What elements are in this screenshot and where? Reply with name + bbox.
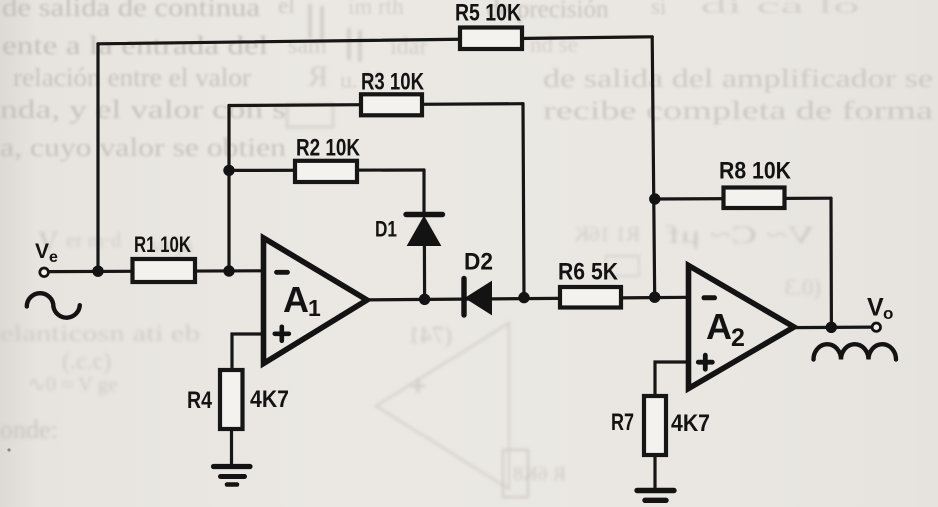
op-amp A1 plus: [275, 327, 289, 341]
wire top R5 run: [98, 37, 652, 44]
svg-text:(0.3: (0.3: [785, 275, 821, 300]
diode D2: [464, 279, 492, 316]
op-amp A1 minus: [277, 270, 288, 275]
svg-text:4K7: 4K7: [671, 410, 710, 437]
svg-text:nda, y el valor con s: nda, y el valor con s: [0, 95, 286, 124]
terminal Ve: [40, 268, 49, 277]
terminal Vo: [872, 323, 880, 331]
svg-text:R6 5K: R6 5K: [558, 259, 619, 286]
node at R1 right / A1 inverting: [223, 265, 234, 276]
svg-text:R1 10K: R1 10K: [134, 232, 191, 257]
node at R2 junction: [223, 165, 234, 176]
svg-text:V: V: [35, 240, 49, 263]
svg-text:2: 2: [731, 324, 745, 352]
wire left vertical feedback riser: [96, 44, 99, 271]
wire R3 drop: [523, 104, 524, 298]
svg-text:o: o: [883, 304, 893, 323]
svg-text:relación entre el valor: relación entre el valor: [13, 63, 251, 92]
wire R2 run: [229, 168, 424, 172]
svg-text:de salida de continua: de salida de continua: [2, 0, 261, 22]
resistor R6: [560, 287, 621, 308]
op-amp A1: [264, 238, 368, 364]
node at A2 output: [826, 322, 837, 333]
op-amp A2 plus: [698, 355, 712, 369]
svg-text:sam: sam: [288, 33, 327, 59]
svg-text:R8 10K: R8 10K: [719, 158, 792, 185]
wire R7 to ground: [653, 455, 656, 488]
speck bottom left: [7, 448, 10, 451]
ghost text line 4: [0, 95, 934, 125]
resistor R4: [220, 370, 243, 429]
svg-text:A: A: [706, 306, 732, 347]
svg-text:R: R: [308, 60, 328, 93]
wire Ve to A1 inverting input: [49, 269, 264, 273]
svg-text:el: el: [278, 0, 295, 18]
node at D2 / R3 drop: [518, 292, 529, 303]
ghost plus: [411, 379, 425, 393]
resistor R7: [644, 396, 666, 455]
ghost V formula left: [38, 227, 193, 258]
svg-text:D1: D1: [375, 217, 397, 242]
svg-text:V: V: [867, 294, 884, 322]
op-amp A2 minus: [704, 295, 715, 300]
ghost vertical strokes top: [310, 4, 360, 62]
svg-text:idar: idar: [390, 34, 427, 60]
svg-text:nd se: nd se: [530, 32, 578, 57]
node at R8 branch: [649, 193, 660, 204]
wire R3 riser: [227, 106, 230, 272]
ghost text line 3: [13, 63, 933, 94]
resistor R3: [361, 94, 422, 115]
wire D1 anode to output node: [423, 245, 426, 299]
svg-text:R2 10K: R2 10K: [296, 135, 361, 162]
ground A2: [637, 491, 674, 501]
ghost small box upper: [287, 104, 333, 127]
wire R4 to ground: [230, 429, 233, 464]
coil symbol at output: [814, 344, 897, 359]
svg-text:R3 10K: R3 10K: [361, 69, 425, 96]
svg-text:∿0 ≈ V ge: ∿0 ≈ V ge: [28, 372, 118, 396]
svg-text:R7: R7: [611, 409, 634, 436]
svg-text:recibe completa de forma: recibe completa de forma: [543, 96, 934, 125]
svg-text:R4: R4: [187, 387, 213, 414]
node at D1 / A1 output: [419, 294, 430, 305]
svg-text:R 6K8: R 6K8: [513, 463, 566, 485]
ghost vertical resistor box: [503, 450, 528, 497]
svg-text:A: A: [283, 279, 309, 320]
wire A2 noninverting input: [655, 362, 689, 396]
wire A2 output: [793, 326, 872, 330]
ghost text line 5: [0, 133, 286, 162]
svg-text:R1 16K: R1 16K: [574, 222, 640, 246]
svg-text:(741: (741: [408, 323, 452, 349]
ground A1: [214, 467, 251, 485]
svg-text:im rth: im rth: [348, 0, 404, 19]
ghost hline: [530, 265, 669, 267]
svg-text:a, cuyo valor se obtien: a, cuyo valor se obtien: [0, 133, 286, 162]
svg-text:R5 10K: R5 10K: [455, 0, 522, 27]
wire R2 to D1 cathode: [422, 170, 425, 215]
svg-text:D2: D2: [464, 249, 493, 276]
diode D1: [406, 215, 443, 246]
wire right vertical R5 drop: [652, 37, 655, 297]
ghost vline upper center: [379, 190, 381, 262]
ghost mirrored figure: triangle: [376, 323, 509, 489]
wire A1 output run to A2 input: [365, 297, 689, 300]
wire R8 drop: [829, 198, 833, 327]
ghost mirrored table texts: [574, 222, 821, 300]
svg-text:1: 1: [308, 295, 321, 321]
svg-text:V~ C~ μf: V~ C~ μf: [666, 222, 815, 249]
svg-text:di ca lo: di ca lo: [700, 0, 860, 18]
svg-text:si: si: [651, 0, 666, 19]
wire R8 run: [655, 197, 831, 201]
resistor R1: [133, 259, 196, 282]
sine source symbol: [27, 293, 80, 317]
svg-text:ente a la entrada del: ente a la entrada del: [2, 31, 268, 60]
op-amp A2: [689, 266, 795, 389]
svg-text:e: e: [49, 249, 58, 266]
wire A1 noninverting input: [232, 334, 264, 370]
resistor R5: [460, 28, 522, 50]
schematic ink layer: [49, 37, 873, 488]
ghost mirrored mid-left block: [0, 321, 200, 444]
ghost text line 2: [2, 31, 578, 60]
ghost text line 1: [2, 0, 860, 23]
svg-text:de salida del amplificador se: de salida del amplificador se: [543, 64, 933, 93]
resistor R2: [295, 161, 357, 182]
node at Ve junction: [92, 266, 103, 277]
ghost box mid-right: [606, 256, 639, 276]
svg-text:onde:: onde:: [0, 415, 58, 444]
wire R3 run: [229, 104, 523, 106]
svg-text:elanticosn ati eb: elanticosn ati eb: [0, 321, 200, 346]
resistor R8: [724, 188, 785, 209]
svg-text:er m·d: er m·d: [66, 228, 122, 252]
node at R6 right / vertical: [649, 292, 660, 303]
svg-text:4K7: 4K7: [250, 386, 289, 413]
